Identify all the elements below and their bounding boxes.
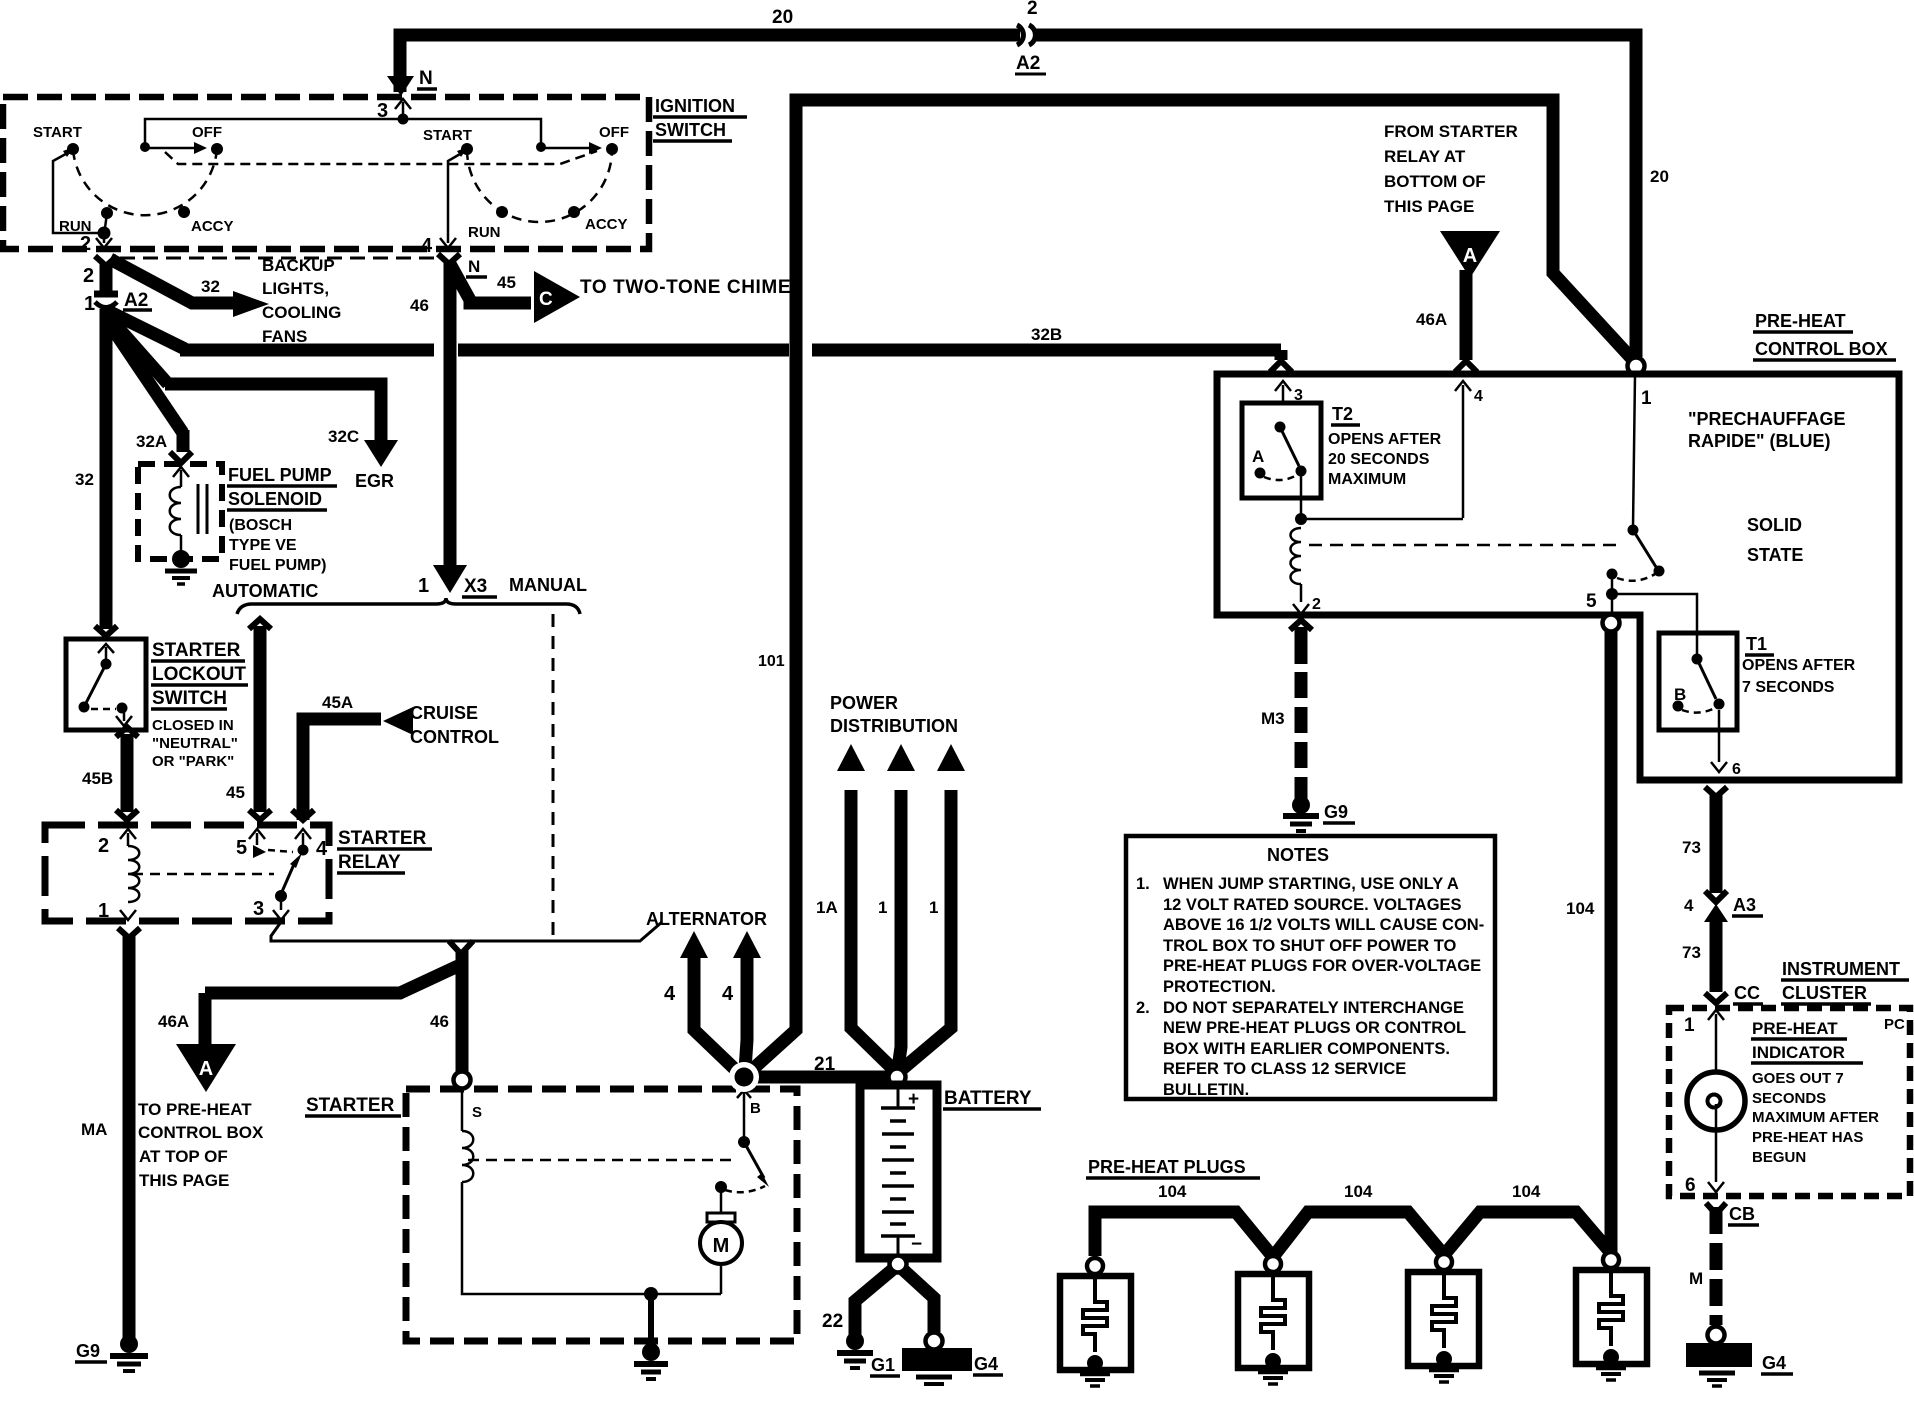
ground G4 instrument cluster [1686,1343,1752,1367]
X3 arrowhead [433,565,467,593]
svg-text:INSTRUMENT: INSTRUMENT [1782,959,1900,979]
relay terminal 2 arrow [127,833,130,846]
T2 switch [1275,422,1286,433]
svg-text:6: 6 [1732,761,1741,778]
svg-text:104: 104 [1566,899,1595,918]
wire 32A to fuel pump solenoid [177,430,190,452]
svg-text:−: − [911,1234,922,1255]
svg-text:PROTECTION.: PROTECTION. [1163,978,1276,996]
svg-text:20: 20 [772,7,793,28]
left switch OFF feed arrow [145,147,196,150]
T1 switch [1692,654,1703,665]
svg-text:A: A [199,1058,213,1080]
svg-text:CC: CC [1734,983,1760,1003]
svg-text:INDICATOR: INDICATOR [1752,1043,1845,1062]
wire M dashed [1710,1207,1723,1325]
starter B contact [743,1086,746,1140]
wire 20 from ignition N to pre-heat box node 1 [400,35,1020,92]
ground G9 bottom left [120,1335,138,1353]
svg-text:32: 32 [201,277,220,296]
svg-text:12 VOLT RATED SOURCE. VOLTAGE: 12 VOLT RATED SOURCE. VOLTAGES [1163,896,1462,914]
alternator arrow 2 [745,957,747,1070]
lockout lever [86,664,106,703]
svg-text:WHEN JUMP STARTING, USE ONLY A: WHEN JUMP STARTING, USE ONLY A [1163,875,1459,893]
svg-text:N: N [468,257,480,276]
node 1 line down to contact [1633,375,1635,527]
svg-text:20 SECONDS: 20 SECONDS [1328,451,1430,468]
terminal 4 arrow inside [1462,385,1465,518]
ground G9 right [1292,796,1310,814]
svg-text:C: C [539,289,553,310]
terminal 4 arrow down [440,238,456,248]
svg-text:CRUISE: CRUISE [410,703,478,723]
svg-text:PRE-HEAT PLUGS: PRE-HEAT PLUGS [1088,1157,1246,1177]
svg-text:MANUAL: MANUAL [509,575,587,595]
svg-text:SOLENOID: SOLENOID [228,489,322,509]
svg-text:RUN: RUN [59,218,92,235]
svg-text:OPENS AFTER: OPENS AFTER [1742,657,1856,674]
svg-text:OPENS AFTER: OPENS AFTER [1328,431,1442,448]
svg-text:FUEL PUMP): FUEL PUMP) [229,557,326,574]
wire MA from relay 1 to G9 [118,928,140,938]
svg-text:CB: CB [1729,1204,1755,1224]
interior feed line [145,119,541,147]
svg-text:STARTER: STARTER [152,640,241,661]
wire 46 junction chevron [449,941,473,954]
wire 104 jumper plug2-plug3 [1273,1212,1444,1257]
brace automatic/manual [237,598,580,614]
svg-text:PRE-HEAT PLUGS FOR OVER-VOLTAG: PRE-HEAT PLUGS FOR OVER-VOLTAGE [1163,957,1481,975]
relay coil dashed link [133,873,274,876]
starter ground junction [644,1287,658,1301]
svg-text:2: 2 [83,265,94,287]
power distribution arrow 1A [851,790,895,1071]
pre-heat coil [1291,528,1302,584]
node 1 circle on pre-heat box [1628,358,1645,375]
terminal 3 arrow inside [1282,385,1285,404]
node A2 fanout rays [106,310,185,349]
svg-text:FUEL PUMP: FUEL PUMP [228,465,332,485]
connector A2 break arcs [1017,25,1023,45]
svg-text:SOLID: SOLID [1747,515,1802,535]
wire 46A into pre-heat terminal 4 [1460,270,1473,360]
svg-text:2: 2 [80,233,91,255]
svg-text:RELAY AT: RELAY AT [1384,147,1466,166]
battery plates [897,1085,900,1108]
starter motor M [720,1187,723,1213]
svg-text:G9: G9 [76,1341,100,1361]
svg-text:NOTES: NOTES [1267,845,1329,865]
svg-text:TYPE VE: TYPE VE [229,537,297,554]
svg-text:G1: G1 [871,1355,895,1375]
svg-text:M: M [1689,1269,1703,1288]
svg-text:ACCY: ACCY [585,216,628,233]
svg-text:OFF: OFF [599,124,629,141]
svg-text:A: A [1252,447,1264,466]
solenoid to ground [180,535,183,556]
ground fuel pump solenoid [165,569,197,574]
wire 46A branch to connector A [205,966,458,993]
svg-text:PRE-HEAT HAS: PRE-HEAT HAS [1752,1129,1863,1146]
left switch dashed arc [73,149,217,215]
svg-text:FROM STARTER: FROM STARTER [1384,122,1518,141]
svg-text:73: 73 [1682,838,1701,857]
node B alternator junction [729,1062,759,1092]
svg-text:5: 5 [236,837,247,859]
svg-text:5: 5 [1586,591,1597,612]
M3 wire flare [1290,620,1312,630]
pre-heat plug 1 [1087,1258,1103,1274]
wire 104 jumper plug1-plug2 [1095,1212,1273,1257]
svg-text:G4: G4 [1762,1353,1786,1373]
battery box [860,1085,937,1258]
svg-text:22: 22 [822,1311,843,1332]
svg-text:CONTROL: CONTROL [410,727,499,747]
starter lockout switch box [66,639,146,730]
terminal 3 arrow inside [402,102,405,119]
instrument cluster dashed box [1669,1008,1910,1196]
left switch lever and wiring to terminal 2 [53,150,103,233]
svg-text:1.: 1. [1136,875,1150,893]
wire 45 to chime connector C [449,262,531,303]
svg-text:"NEUTRAL": "NEUTRAL" [152,735,238,752]
svg-text:1: 1 [929,898,938,917]
wire 21 [744,1071,897,1084]
svg-text:PC: PC [1884,1016,1905,1033]
power distribution arrow 2 [898,790,901,1068]
terminal 2 wire flare [95,256,117,266]
connector A triangle bottom [176,1044,236,1092]
svg-text:ABOVE 16 1/2 VOLTS WILL CAUSE: ABOVE 16 1/2 VOLTS WILL CAUSE CON- [1163,916,1484,934]
svg-text:4: 4 [421,235,433,257]
node battery positive [889,1069,906,1086]
power distribution arrow 3 [900,790,951,1071]
solid state dashed link [1309,544,1624,547]
svg-text:"PRECHAUFFAGE: "PRECHAUFFAGE [1688,409,1846,429]
pre-heat plug 4 [1603,1252,1619,1268]
svg-text:7 SECONDS: 7 SECONDS [1742,679,1835,696]
svg-text:CONTROL BOX: CONTROL BOX [138,1123,264,1142]
svg-text:A: A [1463,245,1477,267]
connector circle above G4 [1708,1327,1725,1344]
svg-text:1: 1 [1641,388,1652,409]
svg-text:RUN: RUN [468,224,501,241]
battery negative fork [855,1265,898,1336]
svg-text:ACCY: ACCY [191,218,234,235]
svg-text:BATTERY: BATTERY [944,1088,1032,1109]
mechanical link dashed [165,151,597,164]
svg-text:IGNITION: IGNITION [655,96,735,116]
wire 104 vertical [1605,631,1618,1253]
svg-text:1: 1 [878,898,887,917]
connector A2 male/female halves [94,291,118,298]
svg-text:4: 4 [316,838,328,860]
svg-text:DO NOT SEPARATELY INTERCHANGE: DO NOT SEPARATELY INTERCHANGE [1163,999,1464,1017]
svg-text:104: 104 [1344,1182,1373,1201]
svg-text:3: 3 [253,898,264,920]
relay contact 5 [253,845,266,858]
svg-text:S: S [472,1104,482,1121]
right switch lever to terminal 4 [448,150,467,243]
svg-text:TROL BOX TO SHUT OFF POWER TO: TROL BOX TO SHUT OFF POWER TO [1163,937,1457,955]
svg-text:COOLING: COOLING [262,303,341,322]
svg-text:4: 4 [1684,896,1694,915]
svg-text:1: 1 [98,900,109,922]
wire 32C to EGR [165,384,381,443]
svg-text:B: B [750,1100,761,1117]
svg-text:CLOSED IN: CLOSED IN [152,717,234,734]
svg-text:T2: T2 [1332,404,1353,424]
relay terminal 3 arrow [280,896,283,910]
svg-text:2: 2 [1312,596,1321,613]
starter dashed link [468,1159,738,1162]
svg-text:46A: 46A [158,1012,189,1031]
svg-text:MAXIMUM: MAXIMUM [1328,471,1406,488]
right switch dashed arc [467,149,612,222]
svg-text:STARTER: STARTER [306,1095,395,1116]
svg-text:1A: 1A [816,898,838,917]
wire 101 top run from pre-heat node 1 to vertical [796,100,1633,360]
svg-text:RAPIDE" (BLUE): RAPIDE" (BLUE) [1688,431,1831,451]
svg-text:4: 4 [722,983,734,1005]
left switch contacts [211,143,223,155]
relay terminal 4 arrow [302,833,305,846]
lockout arrow down [123,711,126,721]
svg-text:PRE-HEAT: PRE-HEAT [1752,1019,1838,1038]
lockout terminal arrow top [105,647,108,660]
relay coil [128,846,139,902]
T2 box [1242,403,1321,498]
svg-text:32A: 32A [136,432,167,451]
pre-heat plug 3 [1436,1254,1452,1270]
svg-text:SWITCH: SWITCH [152,688,227,709]
solenoid core bars [197,484,200,534]
svg-text:45A: 45A [322,693,353,712]
lockout dashed contact [91,708,116,711]
terminal 1 arrow [1715,1014,1718,1074]
svg-text:THIS PAGE: THIS PAGE [139,1171,229,1190]
svg-text:2: 2 [98,835,109,857]
pre-heat indicator bulb [1687,1072,1745,1130]
wire 46 down to starter S [456,950,469,1072]
svg-text:CONTROL BOX: CONTROL BOX [1755,339,1888,359]
wire 32 flare into lockout [95,626,117,636]
alternator arrow 1 [694,957,741,1075]
svg-text:THIS PAGE: THIS PAGE [1384,197,1474,216]
svg-text:1: 1 [1684,1015,1695,1036]
wire 73 lower [1710,918,1723,992]
wire 32B long horizontal [180,344,434,357]
starter dashed box [406,1089,797,1341]
svg-text:A3: A3 [1733,895,1756,915]
svg-text:BOTTOM OF: BOTTOM OF [1384,172,1486,191]
wire terminal 2 down to A2 connector [100,263,113,292]
wire 45A to cruise control [303,719,381,820]
svg-text:SWITCH: SWITCH [655,120,726,140]
svg-text:4: 4 [664,983,676,1005]
svg-text:45B: 45B [82,769,113,788]
svg-text:21: 21 [814,1054,836,1075]
svg-text:1: 1 [84,293,95,315]
svg-text:X3: X3 [464,576,487,597]
svg-text:SECONDS: SECONDS [1752,1090,1826,1107]
terminal 4 wire flare [438,254,460,264]
svg-text:FANS: FANS [262,327,307,346]
svg-text:TO PRE-HEAT: TO PRE-HEAT [138,1100,252,1119]
wire 104 jumper plug3-plug4 [1444,1212,1611,1255]
svg-text:RELAY: RELAY [338,852,401,873]
svg-text:A2: A2 [124,290,148,311]
svg-text:20: 20 [1650,167,1669,186]
svg-text:32C: 32C [328,427,359,446]
svg-text:GOES OUT 7: GOES OUT 7 [1752,1070,1844,1087]
svg-text:4: 4 [1474,388,1483,405]
connector A triangle top [1440,231,1500,278]
relay lever with arrow [281,862,295,894]
svg-text:BACKUP: BACKUP [262,256,335,275]
ground G1 [846,1332,864,1350]
pre-heat plug 2 [1265,1256,1281,1272]
right switch OFF feed arrow [541,147,591,150]
SECTION: notes box [1126,836,1495,1099]
wire 45 from brace to starter relay 5 [249,619,271,629]
pre-heat control box outline [1217,374,1899,780]
T1 terminal 6 arrow [1718,710,1721,762]
connector A3 [1705,891,1727,902]
svg-text:PRE-HEAT: PRE-HEAT [1755,311,1846,331]
T1 box [1659,633,1737,730]
node 5 [1611,574,1614,592]
wire 32 arrow to backup lights [110,259,238,303]
solenoid coil [170,487,181,535]
svg-text:G4: G4 [974,1354,998,1374]
svg-text:2: 2 [1027,0,1038,19]
svg-text:OR "PARK": OR "PARK" [152,753,234,770]
svg-text:73: 73 [1682,943,1701,962]
ground G4 battery [926,1333,943,1350]
starter solenoid coil [461,1088,464,1131]
svg-text:MA: MA [81,1120,107,1139]
svg-text:START: START [423,127,472,144]
svg-text:LOCKOUT: LOCKOUT [152,664,246,685]
svg-text:CLUSTER: CLUSTER [1782,983,1867,1003]
svg-text:START: START [33,124,82,141]
svg-text:45: 45 [497,273,516,292]
svg-text:101: 101 [758,653,785,670]
svg-text:G9: G9 [1324,802,1348,822]
fuel pump solenoid dashed box [138,464,222,559]
svg-text:6: 6 [1685,1175,1696,1196]
svg-text:46: 46 [410,296,429,315]
ground starter [642,1343,660,1361]
svg-text:M: M [713,1235,730,1257]
wire 46 down from ignition [444,262,457,566]
svg-text:NEW PRE-HEAT PLUGS OR CONTROL: NEW PRE-HEAT PLUGS OR CONTROL [1163,1019,1466,1037]
svg-text:T1: T1 [1746,634,1767,654]
svg-text:STATE: STATE [1747,545,1803,565]
separator dashed line [120,257,437,260]
dashed manual line [552,614,555,941]
svg-text:AUTOMATIC: AUTOMATIC [212,581,318,601]
svg-text:BOX WITH EARLIER COMPONENTS.: BOX WITH EARLIER COMPONENTS. [1163,1040,1450,1058]
T2 to junction and coil [1300,476,1303,516]
starter relay dashed box [45,825,329,921]
wire 73 from pre-heat 6 [1705,787,1727,797]
relay terminal 1 arrow [120,910,136,920]
svg-text:46: 46 [430,1012,449,1031]
svg-text:45: 45 [226,783,245,802]
ignition switch dashed box [3,97,649,249]
svg-text:STARTER: STARTER [338,828,427,849]
svg-text:MAXIMUM AFTER: MAXIMUM AFTER [1752,1109,1879,1126]
right switch contacts [606,143,618,155]
wire 45B lockout to relay [116,727,138,737]
relay terminal 5 arrow [256,833,259,845]
svg-text:N: N [419,68,433,89]
starter lever dashed [725,1186,765,1192]
svg-text:EGR: EGR [355,471,394,491]
terminal arrow inside solenoid [180,470,183,487]
svg-text:DISTRIBUTION: DISTRIBUTION [830,716,958,736]
connector CB [1706,1203,1726,1214]
solid state relay contact [1628,525,1639,536]
wire 101 vertical [744,100,796,1077]
svg-text:32B: 32B [1031,325,1062,344]
svg-text:ALTERNATOR: ALTERNATOR [646,909,767,929]
arrowhead N into ignition terminal 3 [387,76,414,96]
starter switch lever [744,1142,764,1178]
svg-text:M3: M3 [1261,709,1285,728]
svg-text:104: 104 [1512,1182,1541,1201]
svg-text:46A: 46A [1416,310,1447,329]
svg-text:BULLETIN.: BULLETIN. [1163,1081,1249,1099]
svg-text:32: 32 [75,470,94,489]
svg-text:1: 1 [418,575,429,597]
svg-text:2.: 2. [1136,999,1150,1017]
svg-text:A2: A2 [1016,53,1040,74]
connector circle at S [454,1072,471,1089]
svg-text:AT TOP OF: AT TOP OF [139,1147,228,1166]
svg-text:LIGHTS,: LIGHTS, [262,279,329,298]
connector C triangle [534,271,580,323]
connector circle node 5 on box edge [1603,615,1620,632]
svg-text:104: 104 [1158,1182,1187,1201]
thin line relay 3 to alternator [271,922,662,941]
svg-text:BEGUN: BEGUN [1752,1149,1806,1166]
svg-text:OFF: OFF [192,124,222,141]
svg-text:POWER: POWER [830,693,898,713]
terminal 2 arrow down [103,233,106,243]
svg-text:TO TWO-TONE CHIME,: TO TWO-TONE CHIME, [580,277,797,298]
svg-text:REFER TO CLASS 12 SERVICE: REFER TO CLASS 12 SERVICE [1163,1060,1406,1078]
svg-text:(BOSCH: (BOSCH [229,517,292,534]
